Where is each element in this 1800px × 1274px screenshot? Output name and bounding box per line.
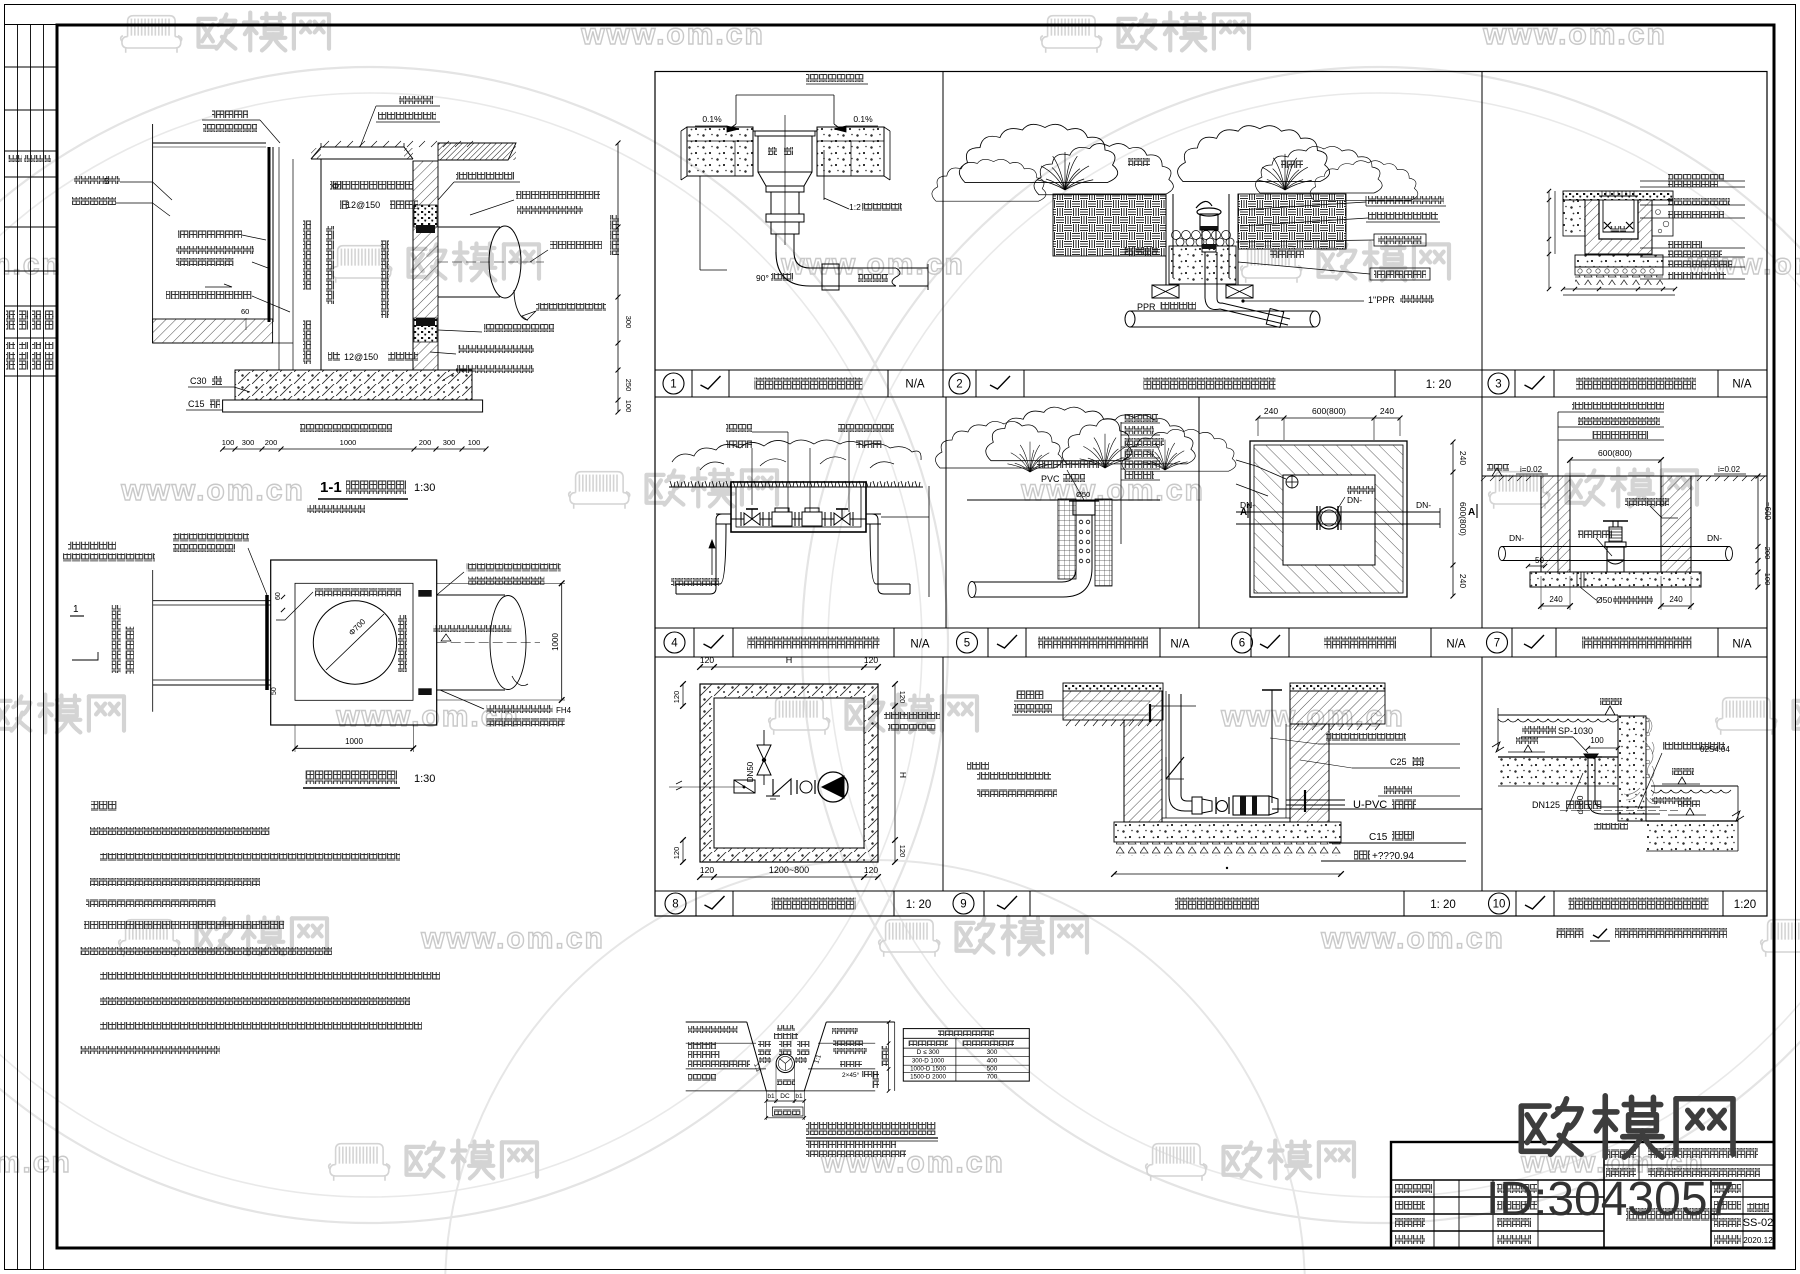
valve and meter assemblies <box>731 518 866 520</box>
svg-text:1000: 1000 <box>551 633 560 651</box>
labels bottom right <box>487 705 553 713</box>
svg-text:1:1: 1:1 <box>813 1053 823 1064</box>
suction elbow and pump <box>1169 795 1192 811</box>
svg-text:1"PPR: 1"PPR <box>1368 295 1395 305</box>
svg-text:b1: b1 <box>767 1093 775 1100</box>
right riser pipe and elbow <box>866 514 910 594</box>
svg-text:DN-: DN- <box>1347 495 1362 505</box>
channel concrete surround hatched <box>1585 200 1652 254</box>
wall inner lines <box>1569 476 1571 572</box>
panel 3 title bar: linear drainage channel node detail, N/A <box>1488 370 1718 397</box>
svg-text:100: 100 <box>624 400 633 413</box>
svg-text:120: 120 <box>864 655 878 665</box>
svg-text:SS-02: SS-02 <box>1743 1217 1774 1229</box>
svg-text:PPR: PPR <box>1137 302 1156 312</box>
svg-text:C15: C15 <box>188 399 205 409</box>
svg-text:120: 120 <box>864 865 878 875</box>
svg-text:300: 300 <box>987 1049 998 1056</box>
outer well square <box>1250 441 1407 597</box>
pipe through section <box>1499 547 1506 561</box>
footing slab big hatched <box>235 370 472 400</box>
anchor bolts in channel <box>1604 222 1611 229</box>
pipe to the right <box>438 226 500 228</box>
svg-text:2×45°: 2×45° <box>842 1071 860 1079</box>
svg-text:C25: C25 <box>1390 757 1407 767</box>
leader from drain hole <box>1256 466 1286 479</box>
main water pipe horizontal <box>1125 311 1135 327</box>
labels right stack <box>1368 196 1444 204</box>
svg-text:www.om.cn: www.om.cn <box>120 474 305 507</box>
anchor bolt right <box>1304 790 1306 812</box>
svg-text:C15: C15 <box>1369 832 1388 843</box>
label: stainless steel drain note <box>806 74 864 82</box>
svg-text:240: 240 <box>1264 406 1278 416</box>
intake valve body <box>1196 201 1221 252</box>
labels right top <box>467 563 561 571</box>
drain body funnel <box>753 131 817 234</box>
svg-text:600(800): 600(800) <box>1458 502 1468 536</box>
svg-text:120: 120 <box>672 691 681 704</box>
basin circle <box>313 601 396 684</box>
right soil block with circles <box>1652 200 1673 236</box>
label inside top <box>315 588 401 596</box>
svg-text:10: 10 <box>1493 899 1506 911</box>
pipe circle in trench <box>776 1054 794 1072</box>
right dimension chain <box>1757 476 1759 587</box>
seep hole lines <box>1576 572 1578 587</box>
svg-text:240: 240 <box>1458 574 1468 588</box>
leader line left from slab <box>699 176 701 270</box>
svg-text:120: 120 <box>700 865 714 875</box>
svg-text:DC: DC <box>780 1093 790 1100</box>
diagonal pipe coupling <box>1266 309 1283 328</box>
foundation second layer circles <box>1575 267 1663 275</box>
svg-text:FH4: FH4 <box>556 706 572 715</box>
break mark left <box>1492 742 1504 752</box>
label: di lou text on drain <box>768 147 777 155</box>
label wall small <box>1652 797 1692 804</box>
panel 6 title bar: valve well plan, N/A <box>1232 628 1432 657</box>
left top slab <box>1063 683 1163 691</box>
labels right stack <box>1326 733 1406 741</box>
manhole cover top <box>311 147 413 159</box>
svg-text:www.om.cn: www.om.cn <box>1482 18 1667 51</box>
panel 8 title bar: pump pit plan, 1:20 <box>665 891 931 916</box>
pipe coupling <box>822 264 839 290</box>
bottom dimension line <box>700 876 878 878</box>
top dimension line <box>700 666 878 668</box>
foundation slab speckled <box>1575 255 1663 267</box>
svg-text:DN-: DN- <box>1240 500 1255 510</box>
pit inner square <box>714 698 864 848</box>
right dim verticals <box>888 1022 890 1091</box>
svg-text:300: 300 <box>624 316 633 329</box>
arrow up on left riser <box>711 540 713 575</box>
valve symbol vertical DN50 <box>757 745 771 760</box>
right wall speckled plugs <box>414 205 437 227</box>
label supply main <box>671 578 719 586</box>
bottom left ground band hatched <box>153 319 273 343</box>
panel 6 drawing: valve well plan <box>1236 406 1477 598</box>
svg-text:0.1%: 0.1% <box>853 114 873 124</box>
note under grid: items checked are for this project <box>1556 928 1727 941</box>
valve body <box>1605 542 1626 547</box>
svg-text:+???0.94: +???0.94 <box>1372 851 1414 862</box>
svg-text:www.om.cn: www.om.cn <box>335 700 520 733</box>
svg-text:120: 120 <box>672 847 681 860</box>
svg-text:120: 120 <box>898 691 907 704</box>
trench labels left <box>688 1026 738 1033</box>
label bottom bearing <box>300 424 392 432</box>
svg-text:6: 6 <box>1239 638 1245 650</box>
grass ground line with tufts <box>669 486 923 488</box>
left rotated text <box>112 605 121 673</box>
svg-text:D ≤ 300: D ≤ 300 <box>917 1049 940 1056</box>
svg-text:Φ700: Φ700 <box>347 617 368 638</box>
svg-text:12@150: 12@150 <box>346 200 380 210</box>
anchor bolt top <box>1149 704 1151 722</box>
svg-text:1: 1 <box>670 379 676 391</box>
svg-text:90°: 90° <box>756 273 769 283</box>
labels left side <box>74 176 120 184</box>
upper water surface mark <box>1605 706 1615 715</box>
floor slab right speckled <box>817 127 884 176</box>
center line of drain <box>784 115 786 245</box>
svg-text:500: 500 <box>987 1066 998 1073</box>
left boundary <box>152 570 154 712</box>
svg-text:ID:3043057: ID:3043057 <box>1486 1173 1734 1226</box>
labels left top <box>1016 690 1044 699</box>
pipe through well <box>1236 511 1440 513</box>
circle diameter line <box>326 614 384 670</box>
left gravel column <box>1058 499 1076 579</box>
svg-text:1: 20: 1: 20 <box>1426 379 1452 391</box>
panel 8 drawing: pump pit plan <box>669 655 940 880</box>
check valve symbol <box>773 779 791 795</box>
title block table <box>1391 1142 1774 1248</box>
svg-text:600(800): 600(800) <box>1312 406 1346 416</box>
riser pipe in pit <box>1168 694 1170 795</box>
svg-text:5: 5 <box>964 638 970 650</box>
svg-text:0.1%: 0.1% <box>702 114 722 124</box>
label drain SP-1030 <box>1522 726 1556 734</box>
label: branch pipe <box>858 274 888 282</box>
svg-text:1: 20: 1: 20 <box>1430 899 1456 911</box>
trench backfill table <box>903 1029 1029 1082</box>
svg-text:700: 700 <box>987 1074 998 1081</box>
svg-text:i=0.02: i=0.02 <box>1520 465 1543 474</box>
left soil block <box>1563 200 1585 236</box>
svg-text:1:2: 1:2 <box>849 202 861 212</box>
steel bar dark <box>265 595 269 690</box>
svg-text:1500-D 2000: 1500-D 2000 <box>910 1074 946 1081</box>
bottom slab speckled <box>1530 572 1701 587</box>
right gravel column <box>1095 499 1112 586</box>
labels water meter and valve left <box>726 424 752 432</box>
label slope small <box>433 625 511 632</box>
upper floor level mark <box>1524 745 1532 752</box>
svg-text:=600: =600 <box>1763 502 1772 521</box>
concrete block under intake <box>1169 246 1236 284</box>
left planting bushes <box>959 124 1117 182</box>
pit outer square <box>700 684 878 862</box>
guide rod with T top <box>1271 690 1273 803</box>
drain funnel on upper floor <box>1584 754 1598 758</box>
svg-text:200: 200 <box>419 438 432 447</box>
drain pipe out right <box>1286 799 1345 801</box>
right dimension chain vertical <box>617 143 619 412</box>
svg-text:N/A: N/A <box>1732 379 1752 391</box>
panel 9 title bar: pump pit detail, 1:20 <box>953 891 1456 916</box>
title sand basin plan <box>305 770 397 784</box>
panel 2 drawing: quick intake valve installation <box>932 124 1446 327</box>
pit right wall <box>1228 194 1230 278</box>
trench inner dim lines <box>775 1063 777 1103</box>
label PVC drain <box>1037 460 1099 468</box>
green labels on plants <box>1128 158 1150 166</box>
soil labels <box>1124 247 1158 255</box>
svg-text:1:30: 1:30 <box>414 482 435 494</box>
svg-text:Ø50: Ø50 <box>1076 490 1090 499</box>
svg-text:N/A: N/A <box>910 639 930 651</box>
section mark 1 bottom flag <box>72 652 98 660</box>
svg-text:N/A: N/A <box>1732 639 1752 651</box>
panel 4 drawing: outdoor water meter battery <box>669 424 929 597</box>
right side leader labels <box>1668 174 1724 181</box>
svg-text:120: 120 <box>898 845 907 858</box>
support label <box>1578 530 1612 538</box>
svg-text:H: H <box>898 772 908 778</box>
svg-text:100: 100 <box>1590 736 1604 745</box>
panel 5 title bar: greening drain detail, N/A <box>957 628 1161 657</box>
svg-text:4: 4 <box>671 638 678 650</box>
support cross left <box>1152 285 1179 298</box>
svg-text:www.om.cn: www.om.cn <box>580 18 765 51</box>
concrete support block <box>1607 560 1624 572</box>
creeper plant on wall <box>1624 716 1664 804</box>
notes list left <box>967 762 989 770</box>
note text right <box>884 712 940 719</box>
label drain part ref <box>1663 742 1725 750</box>
panel 7 title bar: valve well A-A section, N/A <box>1487 628 1719 657</box>
panel 2 title bar: quick water intake installation detail, 1:20 <box>949 370 1451 397</box>
labels top left <box>68 542 116 550</box>
pipe to right <box>437 594 505 596</box>
svg-text:A: A <box>1468 507 1475 518</box>
leader lines from pit to labels <box>1238 202 1366 210</box>
trench title <box>806 1122 936 1135</box>
svg-text:400: 400 <box>987 1058 998 1065</box>
valve on pipe <box>1318 507 1340 529</box>
svg-text:600(800): 600(800) <box>1598 448 1632 458</box>
left dimension marks <box>682 684 684 706</box>
bottom dim line <box>1114 873 1341 875</box>
outer square of basin <box>271 560 437 725</box>
svg-text:50: 50 <box>271 687 278 695</box>
svg-text:240: 240 <box>1380 406 1394 416</box>
bottom dims 240 <box>1541 605 1570 607</box>
svg-text:1: 20: 1: 20 <box>906 899 932 911</box>
panel 7 drawing: valve well section A-A <box>1481 402 1772 610</box>
right planting bushes <box>1178 126 1330 182</box>
label linear channel top left <box>212 110 248 118</box>
svg-text:www.om.cn: www.om.cn <box>0 1146 72 1179</box>
svg-text:3: 3 <box>1495 379 1501 391</box>
panel 1 title bar: floor drain installation detail, N/A <box>663 370 888 397</box>
svg-text:DN-: DN- <box>1416 500 1431 510</box>
details grid frame <box>655 72 1767 917</box>
panel 3 drawing: linear channel node detail <box>1547 174 1745 295</box>
lower water line and waves <box>1651 785 1738 787</box>
svg-text:i=0.02: i=0.02 <box>1718 465 1741 474</box>
upper water line and waves <box>1498 714 1618 716</box>
top dimension line <box>1258 417 1400 419</box>
svg-text:DN125: DN125 <box>1532 800 1560 810</box>
valve stem and handwheel <box>1603 520 1628 522</box>
svg-text:100: 100 <box>222 438 235 447</box>
drain vertical pipe <box>775 234 777 252</box>
pit left wall <box>1124 720 1162 822</box>
svg-text:DN-: DN- <box>1707 533 1722 543</box>
lower water surface mark <box>1678 777 1686 784</box>
sludge pump rect symbol <box>734 780 755 793</box>
intake elbow to diagonal pipe <box>1205 298 1288 325</box>
channel U body <box>1599 200 1638 239</box>
elbow to horizontal drain pipe <box>973 568 1076 582</box>
drain box at top <box>1073 501 1095 515</box>
shaft interior walls <box>320 159 322 370</box>
svg-text:200: 200 <box>1763 547 1772 560</box>
bush outline band <box>672 440 921 462</box>
svg-text:Ø50: Ø50 <box>1596 595 1612 605</box>
tank wall speckled column <box>1618 716 1646 821</box>
slab edge break marks <box>681 127 890 180</box>
svg-text:300-D 1000: 300-D 1000 <box>912 1058 945 1065</box>
ground line top left <box>153 142 266 144</box>
black pipe anchors <box>418 590 431 597</box>
drawing sand basin plan <box>63 533 572 788</box>
equipment center line <box>669 786 745 788</box>
svg-text:240: 240 <box>1669 595 1683 604</box>
svg-text:www.om.cn: www.om.cn <box>420 922 605 955</box>
svg-text:1200~800: 1200~800 <box>769 865 809 875</box>
svg-text:N/A: N/A <box>905 379 925 391</box>
svg-text:H: H <box>786 655 793 665</box>
right label ladder <box>1120 422 1122 544</box>
svg-text:b1: b1 <box>795 1093 803 1100</box>
right dimension line <box>894 684 896 862</box>
trench ground lines <box>686 1021 747 1023</box>
right pit wall hatched <box>1661 476 1691 572</box>
cover side hatch left <box>311 148 321 159</box>
bottom dimension chain <box>223 448 486 450</box>
upper pool floor and slab <box>1498 756 1618 758</box>
title block labels <box>1395 1148 1773 1245</box>
svg-text:300: 300 <box>443 438 456 447</box>
meter pit box <box>731 482 866 532</box>
inner opening square <box>1283 475 1375 565</box>
label basin cover top center <box>399 96 433 104</box>
pipe break S mark <box>892 268 900 286</box>
lower pool floor <box>1646 820 1738 822</box>
grate at top <box>1599 195 1638 197</box>
notes text block <box>80 801 440 1054</box>
svg-text:PVC: PVC <box>1041 474 1060 484</box>
trench excavation detail drawing <box>686 1020 938 1157</box>
panel 10 drawing: tank expansion drain port <box>1492 698 1744 851</box>
svg-text:120: 120 <box>700 655 714 665</box>
svg-text:1000: 1000 <box>345 737 363 746</box>
panel 10 title bar: tank drain port installation, 1:20 <box>1489 891 1757 916</box>
inner square dashed <box>295 583 413 700</box>
right soil weave band <box>1238 194 1346 249</box>
svg-text:60: 60 <box>241 307 249 316</box>
lower floor level mark <box>1686 808 1694 815</box>
subbase wavy <box>1114 842 1341 856</box>
svg-text:12@150: 12@150 <box>344 352 378 362</box>
ground hatch top right <box>438 143 516 160</box>
riser top cross slab <box>1149 705 1196 707</box>
right dim 1000 <box>561 583 563 700</box>
right dimension line <box>1452 442 1454 596</box>
channel left wall lines <box>272 147 274 322</box>
leader 2 from hatch <box>1236 484 1268 496</box>
svg-text:200: 200 <box>265 438 278 447</box>
pit floor <box>1162 821 1290 823</box>
svg-text:N/A: N/A <box>1170 639 1190 651</box>
pipe centerline dots <box>1560 810 1680 812</box>
svg-text:7: 7 <box>1494 638 1500 650</box>
ground line with hatch marks <box>1482 475 1767 477</box>
support cross right <box>1226 285 1253 298</box>
svg-text:1:30: 1:30 <box>414 773 435 785</box>
left boundary line <box>152 124 154 343</box>
drawing 1-1 section of sand basin <box>72 96 633 513</box>
check valve diagonal on riser <box>1166 757 1184 779</box>
svg-text:C30: C30 <box>190 376 207 386</box>
interior annotations vertical strips <box>303 220 311 290</box>
svg-text:DN-: DN- <box>1509 533 1524 543</box>
right top slab <box>1290 683 1385 691</box>
svg-text:1000-D 1500: 1000-D 1500 <box>910 1066 946 1073</box>
svg-text:250: 250 <box>624 379 633 392</box>
perforated riser pipe <box>1075 515 1077 568</box>
svg-text:2: 2 <box>956 379 962 391</box>
svg-text:9: 9 <box>960 899 966 911</box>
bottom dimension lines <box>1563 288 1675 290</box>
left signature strip columns <box>5 25 58 1270</box>
drain elbow to horizontal <box>1588 800 1646 814</box>
flange circle symbol <box>796 780 798 794</box>
svg-text:1: 1 <box>73 604 79 615</box>
arrow mid left <box>205 284 232 287</box>
right wall hatched band <box>413 161 438 370</box>
svg-text:100: 100 <box>1763 573 1772 586</box>
vertical text strip right interior <box>398 615 407 672</box>
bushes <box>935 421 1062 468</box>
svg-text:www.om.cn: www.om.cn <box>1320 922 1505 955</box>
trench labels inside <box>777 1025 795 1031</box>
left riser pipe and elbow to main <box>716 513 718 515</box>
labels backflow preventer and valve right <box>838 424 894 432</box>
intake riser pipe <box>1204 252 1206 298</box>
bedding slab speckled <box>1114 822 1341 842</box>
left dimension chain <box>1548 191 1550 289</box>
svg-text:2020.12: 2020.12 <box>1743 1236 1773 1245</box>
svg-text:1-1: 1-1 <box>320 479 342 496</box>
drain hole symbol <box>1286 476 1298 488</box>
svg-text:1:20: 1:20 <box>1734 899 1756 911</box>
